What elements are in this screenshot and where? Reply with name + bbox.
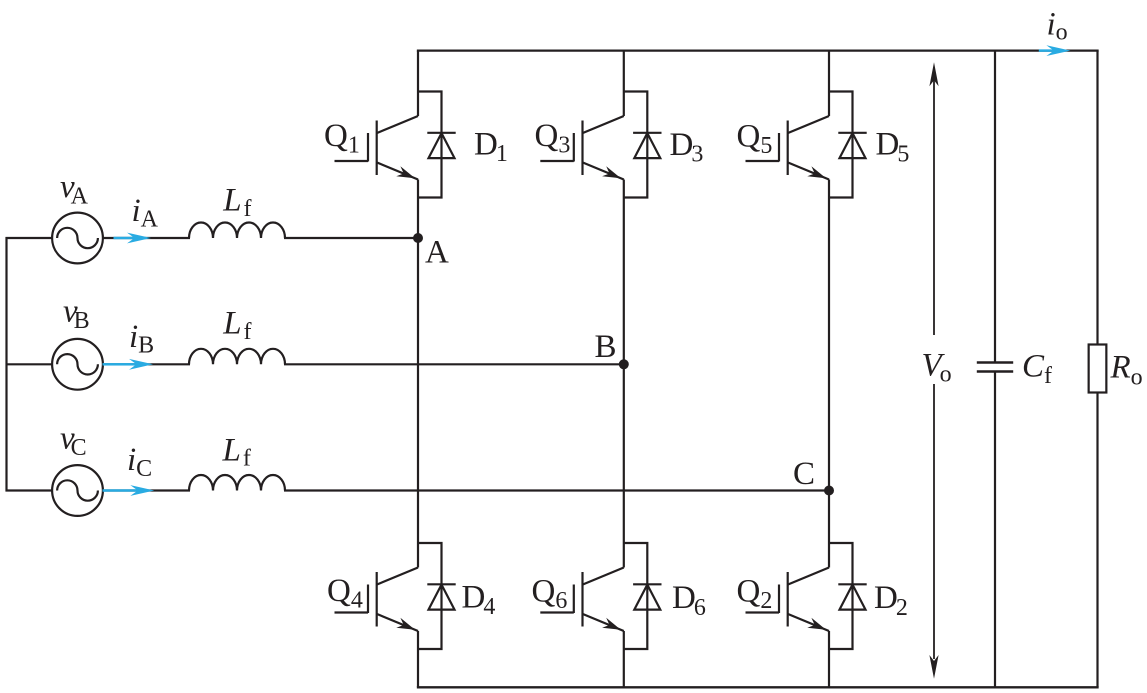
wire: inductor to node C <box>284 489 829 491</box>
inductor L_f (phase C) <box>189 475 285 491</box>
transistor Q2 <box>746 568 830 632</box>
current arrow i_o <box>1039 45 1071 56</box>
current arrow iA <box>114 233 152 244</box>
diode D3 <box>624 92 662 198</box>
node A junction dot <box>413 233 423 243</box>
wire: leg 1 bottom bus <box>417 631 419 687</box>
wire: left neutral bus <box>5 237 7 492</box>
wire: source vA to inductor <box>103 237 190 239</box>
wire: neutral bus to source vB <box>6 363 53 365</box>
current arrow iC <box>103 485 155 496</box>
AC source vC <box>52 465 103 516</box>
AC source vA <box>52 213 103 264</box>
wire: inductor to node A <box>284 237 418 239</box>
wire: leg 3 top bus <box>828 51 830 116</box>
wire: leg 3 mid bus <box>828 180 830 568</box>
inductor L_f (phase B) <box>189 349 285 365</box>
inductor L_f (phase A) <box>189 223 285 239</box>
svg-text:B: B <box>595 329 617 365</box>
diode D1 <box>418 92 456 198</box>
voltage arrow V_o (line top) <box>933 80 935 335</box>
transistor Q4 <box>335 568 419 632</box>
node B junction dot <box>619 359 629 369</box>
wire: capacitor C_f top lead <box>994 51 996 363</box>
voltage arrow V_o (line bottom) <box>933 384 935 659</box>
transistor Q3 <box>540 116 624 180</box>
wire: inductor to node B <box>284 363 624 365</box>
wire: leg 2 top bus <box>623 51 625 116</box>
wire: resistor R_o bottom lead <box>1096 393 1098 688</box>
transistor Q1 <box>335 116 419 180</box>
diode D2 <box>829 543 867 649</box>
svg-text:A: A <box>425 235 449 271</box>
resistor R_o <box>1089 345 1107 393</box>
wire: source vB to inductor <box>103 363 190 365</box>
svg-text:C: C <box>793 456 815 492</box>
voltage arrow V_o (head up) <box>929 62 938 86</box>
wire: neutral bus to source vC <box>6 489 53 491</box>
wire: resistor R_o top lead <box>1096 51 1098 345</box>
wire: leg 1 mid bus <box>417 180 419 568</box>
voltage arrow V_o (head down) <box>929 655 938 679</box>
wire: leg 3 bottom bus <box>828 631 830 687</box>
current arrow iB <box>103 359 154 370</box>
transistor Q5 <box>746 116 830 180</box>
wire: bottom DC rail (negative bus) <box>417 686 1099 688</box>
wire: neutral bus to source vA <box>6 237 53 239</box>
diode D6 <box>624 543 662 649</box>
wire: leg 2 bottom bus <box>623 631 625 687</box>
AC source vB <box>52 339 103 390</box>
wire: leg 2 mid bus <box>623 180 625 568</box>
wire: capacitor C_f bottom lead <box>994 372 996 688</box>
wire: leg 1 top bus <box>417 51 419 116</box>
node C junction dot <box>824 486 834 496</box>
diode D5 <box>829 92 867 198</box>
wire: source vC to inductor <box>103 489 190 491</box>
transistor Q6 <box>540 568 624 632</box>
capacitor C_f <box>977 363 1013 372</box>
diode D4 <box>418 543 456 649</box>
wire: top DC rail (positive bus) <box>417 49 1099 51</box>
